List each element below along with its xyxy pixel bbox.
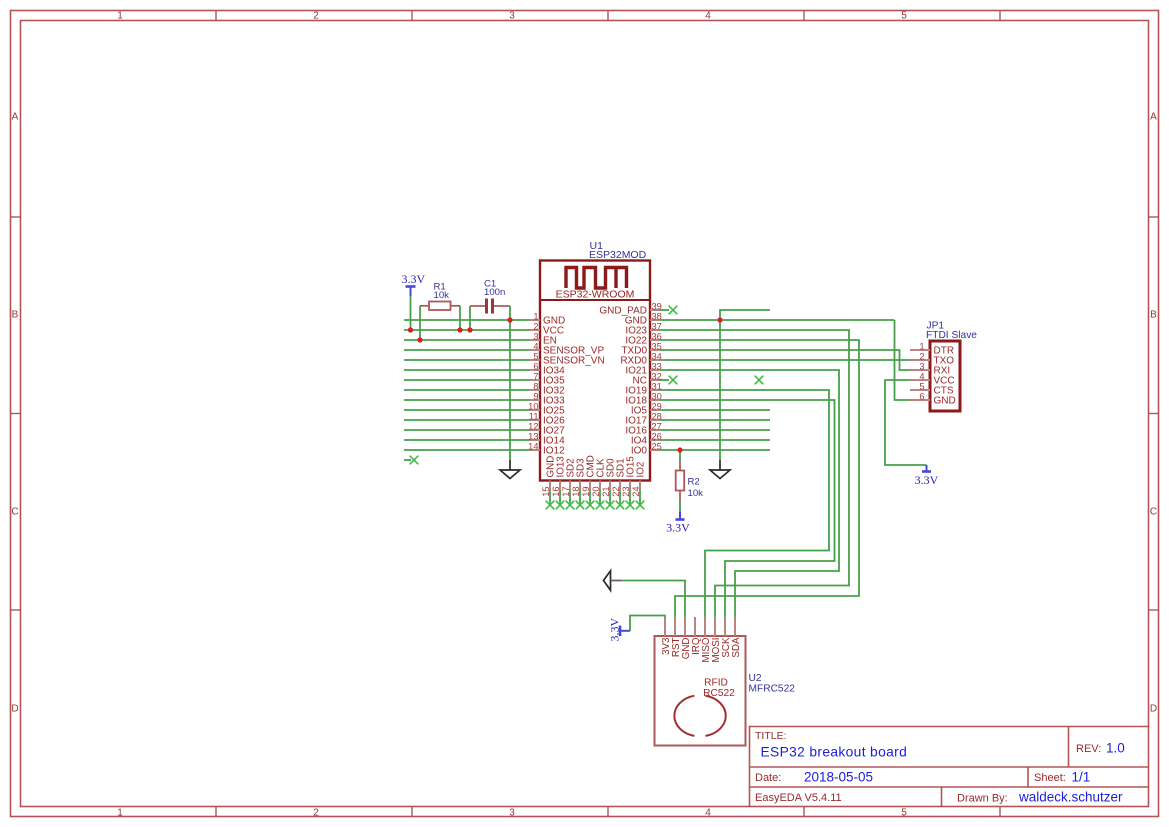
svg-text:R2: R2 xyxy=(688,477,700,488)
svg-text:Drawn By:: Drawn By: xyxy=(957,793,1008,805)
svg-text:1/1: 1/1 xyxy=(1072,770,1091,785)
svg-text:6: 6 xyxy=(919,391,924,401)
svg-text:33: 33 xyxy=(652,361,662,371)
svg-text:4: 4 xyxy=(533,341,538,351)
svg-text:7: 7 xyxy=(533,371,538,381)
svg-text:32: 32 xyxy=(652,371,662,381)
svg-text:4: 4 xyxy=(705,11,711,22)
svg-text:SDA: SDA xyxy=(731,637,742,658)
svg-text:1: 1 xyxy=(919,341,924,351)
svg-text:RC522: RC522 xyxy=(703,688,735,699)
svg-text:MFRC522: MFRC522 xyxy=(749,684,796,695)
svg-text:29: 29 xyxy=(652,401,662,411)
svg-text:10k: 10k xyxy=(434,290,450,301)
svg-text:15: 15 xyxy=(541,486,551,496)
svg-text:Date:: Date: xyxy=(755,772,781,784)
svg-text:1: 1 xyxy=(117,11,123,22)
svg-text:IO2: IO2 xyxy=(636,462,647,478)
svg-text:D: D xyxy=(11,704,18,715)
svg-text:39: 39 xyxy=(652,301,662,311)
svg-text:C: C xyxy=(1150,507,1157,518)
svg-text:35: 35 xyxy=(652,341,662,351)
svg-text:B: B xyxy=(1150,310,1157,321)
svg-text:10: 10 xyxy=(528,401,538,411)
svg-text:12: 12 xyxy=(528,421,538,431)
svg-text:1: 1 xyxy=(533,311,538,321)
svg-text:2: 2 xyxy=(313,11,319,22)
svg-text:C: C xyxy=(11,507,18,518)
svg-text:19: 19 xyxy=(581,486,591,496)
svg-text:3.3V: 3.3V xyxy=(915,473,939,487)
svg-text:2: 2 xyxy=(313,808,319,819)
svg-text:IO0: IO0 xyxy=(631,446,648,457)
svg-text:3: 3 xyxy=(533,331,538,341)
svg-text:30: 30 xyxy=(652,391,662,401)
svg-text:Sheet:: Sheet: xyxy=(1034,772,1066,784)
svg-text:24: 24 xyxy=(631,486,641,496)
svg-text:21: 21 xyxy=(601,486,611,496)
svg-text:waldeck.schutzer: waldeck.schutzer xyxy=(1018,790,1123,805)
svg-text:REV:: REV: xyxy=(1076,743,1101,755)
svg-text:A: A xyxy=(1150,112,1157,123)
svg-text:3: 3 xyxy=(509,808,515,819)
svg-text:TITLE:: TITLE: xyxy=(755,730,787,742)
svg-text:5: 5 xyxy=(919,381,924,391)
svg-text:3.3V: 3.3V xyxy=(666,521,690,535)
svg-text:2: 2 xyxy=(919,351,924,361)
svg-text:D: D xyxy=(1150,704,1157,715)
svg-text:17: 17 xyxy=(561,486,571,496)
svg-text:23: 23 xyxy=(621,486,631,496)
svg-text:U2: U2 xyxy=(749,673,762,684)
svg-text:4: 4 xyxy=(919,371,924,381)
svg-text:GND: GND xyxy=(934,396,956,407)
svg-text:6: 6 xyxy=(533,361,538,371)
svg-text:38: 38 xyxy=(652,311,662,321)
svg-text:16: 16 xyxy=(551,486,561,496)
svg-text:31: 31 xyxy=(652,381,662,391)
svg-text:IO12: IO12 xyxy=(543,446,565,457)
svg-text:3.3V: 3.3V xyxy=(608,618,622,642)
svg-text:1: 1 xyxy=(117,808,123,819)
svg-text:34: 34 xyxy=(652,351,662,361)
svg-text:18: 18 xyxy=(571,486,581,496)
svg-text:EasyEDA V5.4.11: EasyEDA V5.4.11 xyxy=(755,792,842,804)
svg-text:25: 25 xyxy=(652,441,662,451)
svg-text:28: 28 xyxy=(652,411,662,421)
svg-text:ESP32MOD: ESP32MOD xyxy=(589,249,647,261)
svg-text:1.0: 1.0 xyxy=(1106,741,1125,756)
svg-text:5: 5 xyxy=(901,11,907,22)
svg-text:5: 5 xyxy=(901,808,907,819)
svg-text:10k: 10k xyxy=(688,488,704,499)
svg-text:2: 2 xyxy=(533,321,538,331)
svg-text:36: 36 xyxy=(652,331,662,341)
svg-text:11: 11 xyxy=(529,411,539,421)
svg-text:A: A xyxy=(12,112,19,123)
svg-text:B: B xyxy=(12,310,19,321)
svg-text:2018-05-05: 2018-05-05 xyxy=(804,770,873,785)
svg-text:22: 22 xyxy=(611,486,621,496)
svg-text:FTDI Slave: FTDI Slave xyxy=(926,330,977,341)
svg-text:100n: 100n xyxy=(484,287,505,298)
svg-text:5: 5 xyxy=(533,351,538,361)
svg-text:ESP32-WROOM: ESP32-WROOM xyxy=(556,289,635,301)
svg-text:3: 3 xyxy=(509,11,515,22)
svg-text:3: 3 xyxy=(919,361,924,371)
svg-text:3.3V: 3.3V xyxy=(402,272,426,286)
svg-text:4: 4 xyxy=(705,808,711,819)
svg-text:27: 27 xyxy=(652,421,662,431)
svg-text:RFID: RFID xyxy=(704,678,728,689)
svg-text:20: 20 xyxy=(591,486,601,496)
svg-text:9: 9 xyxy=(533,391,538,401)
svg-text:13: 13 xyxy=(528,431,538,441)
svg-text:8: 8 xyxy=(533,381,538,391)
svg-text:26: 26 xyxy=(652,431,662,441)
svg-text:14: 14 xyxy=(528,441,538,451)
svg-text:ESP32 breakout board: ESP32 breakout board xyxy=(761,745,908,760)
svg-text:37: 37 xyxy=(652,321,662,331)
